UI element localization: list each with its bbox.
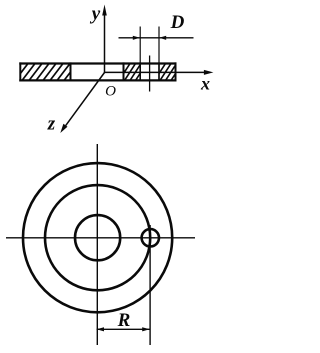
D right arrow	[159, 36, 166, 40]
plate right edge	[175, 62, 177, 81]
D extension line left	[139, 27, 141, 81]
small hole centerline (top view)	[149, 56, 151, 92]
y axis	[104, 11, 106, 73]
central hole left edge	[70, 62, 72, 81]
D extension line right	[158, 27, 160, 81]
z axis	[66, 73, 105, 126]
disk horizontal centerline	[6, 237, 195, 239]
central hole right edge	[123, 62, 125, 81]
disk vertical centerline	[96, 144, 98, 345]
inner circle	[75, 215, 120, 260]
svg-text:y: y	[90, 4, 101, 25]
R dimension line	[97, 328, 150, 330]
plate left edge	[19, 62, 21, 81]
small hole right edge	[158, 62, 160, 81]
plate top edge	[19, 62, 176, 64]
x axis arrowhead	[204, 70, 214, 75]
y axis arrowhead	[102, 5, 107, 16]
hatching right block B	[155, 64, 183, 81]
R left arrow	[97, 327, 105, 331]
x axis	[105, 71, 206, 73]
R right arrow	[142, 327, 150, 331]
z axis arrowhead	[60, 124, 67, 133]
plate bottom edge	[19, 79, 176, 81]
D dimension line	[119, 37, 194, 39]
D left arrow	[133, 36, 140, 40]
hatching left block	[15, 64, 77, 81]
svg-text:x: x	[200, 73, 210, 93]
middle circle	[45, 185, 150, 290]
svg-text:z: z	[47, 114, 56, 135]
small hole vertical line	[149, 225, 151, 345]
svg-text:D: D	[170, 12, 185, 33]
svg-text:O: O	[105, 84, 116, 100]
svg-text:R: R	[117, 310, 131, 331]
hatching right block A	[119, 64, 147, 81]
small hole left edge	[139, 62, 141, 81]
small hole circle	[142, 229, 159, 246]
outer circle	[23, 163, 172, 312]
